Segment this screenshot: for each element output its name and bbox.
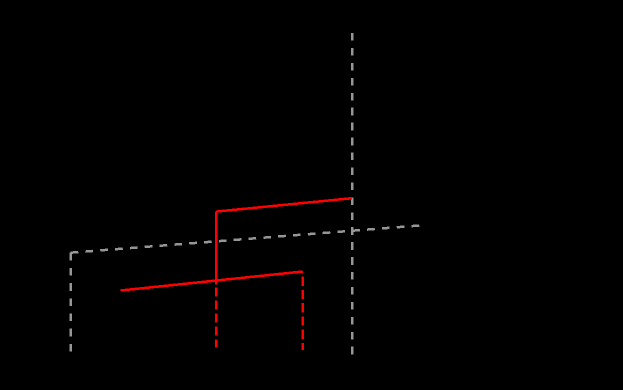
gray dashed vertical line (left, at x=70.6) (69, 253, 72, 352)
gray dashed sloped price line (71, 226, 420, 253)
red vertical jump segment at x=216 (215, 212, 218, 285)
red lower supply segment (120, 272, 302, 291)
gray dashed vertical line (tall, at x=352) (351, 33, 354, 355)
red upper supply segment (216, 198, 352, 211)
red dashed drop line at x=216 (215, 288, 218, 348)
red dashed drop line at x=302.8 (302, 277, 305, 351)
